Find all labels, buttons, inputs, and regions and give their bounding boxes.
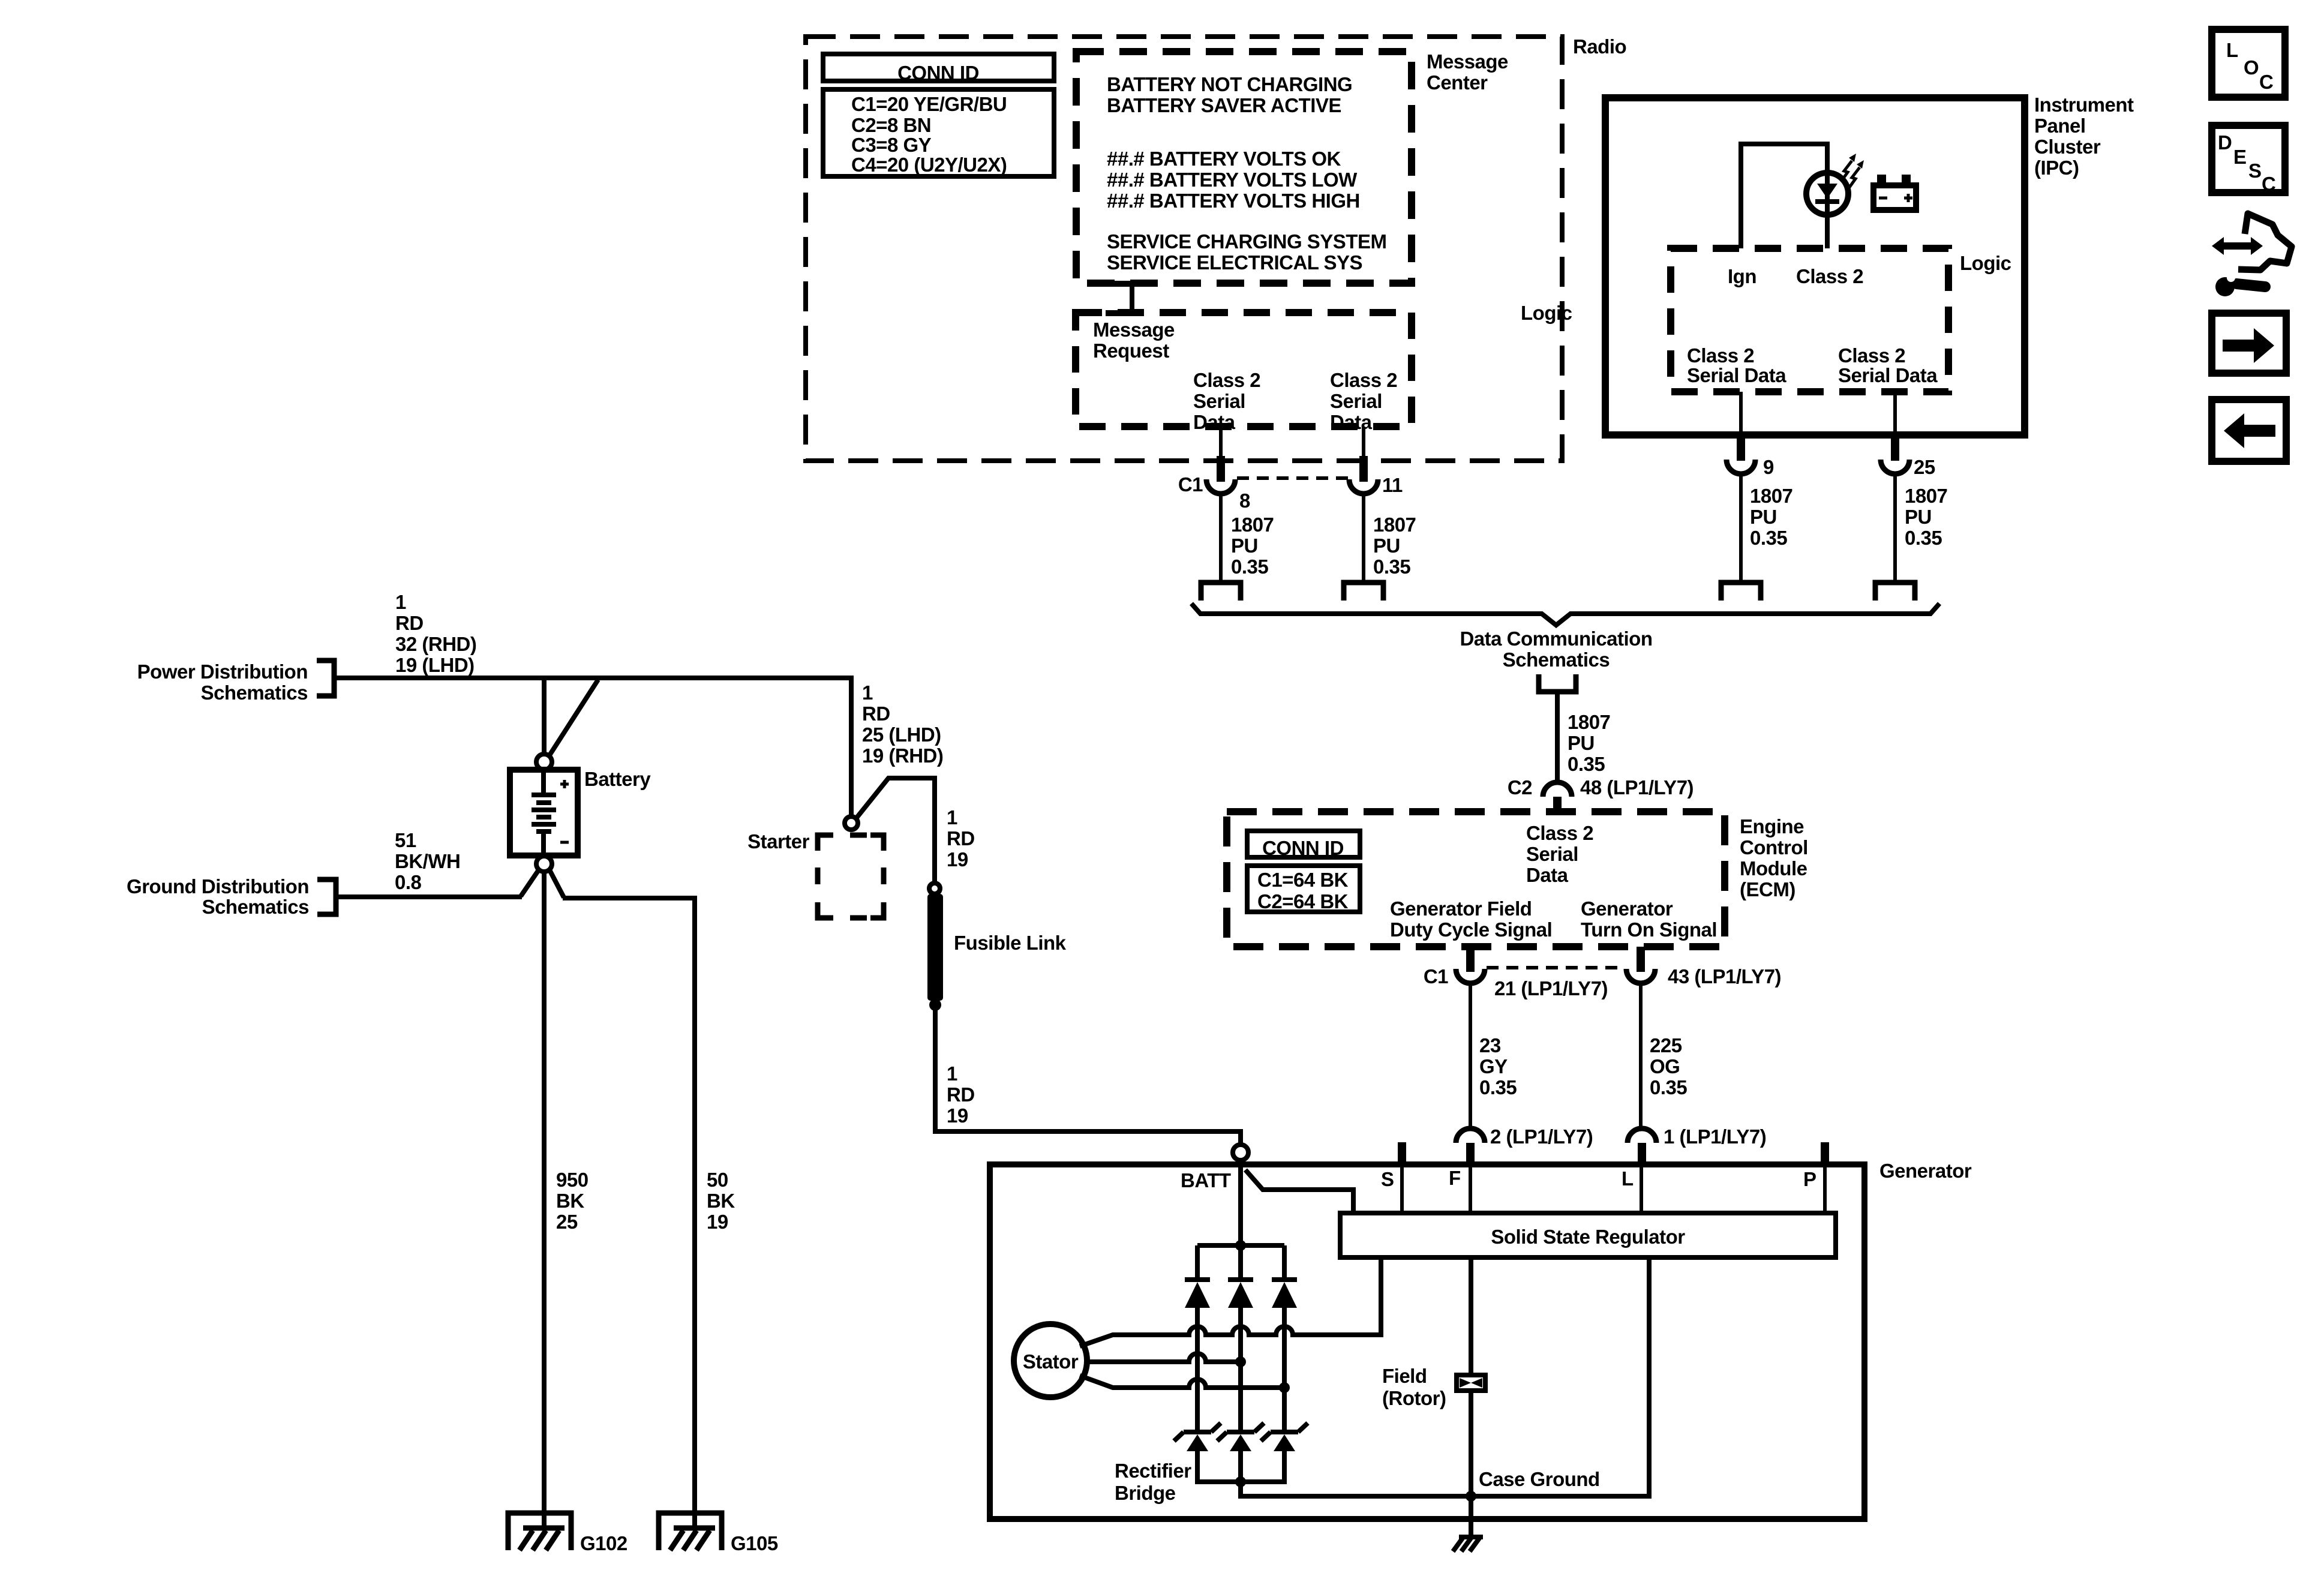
svg-text:19: 19 (947, 1104, 968, 1127)
svg-text:1: 1 (862, 682, 873, 704)
svg-text:Data: Data (1526, 864, 1569, 886)
svg-text:32 (RHD): 32 (RHD) (395, 633, 476, 655)
svg-text:48 (LP1/LY7): 48 (LP1/LY7) (1580, 776, 1694, 798)
svg-text:C4=20 (U2Y/U2X): C4=20 (U2Y/U2X) (851, 154, 1007, 176)
svg-text:Radio: Radio (1573, 35, 1626, 58)
svg-text:CONN ID: CONN ID (897, 62, 979, 84)
svg-text:(ECM): (ECM) (1740, 878, 1795, 900)
svg-text:Schematics: Schematics (201, 682, 308, 704)
svg-text:Stator: Stator (1023, 1350, 1079, 1373)
svg-text:9: 9 (1763, 456, 1774, 478)
svg-text:CONN ID: CONN ID (1262, 837, 1344, 859)
svg-text:PU: PU (1568, 732, 1595, 754)
svg-text:C3=8 GY: C3=8 GY (851, 134, 932, 156)
svg-text:Schematics: Schematics (1503, 649, 1610, 671)
svg-text:Bridge: Bridge (1115, 1482, 1176, 1504)
svg-text:O: O (2244, 56, 2259, 79)
svg-text:950: 950 (556, 1169, 588, 1191)
svg-text:43 (LP1/LY7): 43 (LP1/LY7) (1668, 965, 1781, 987)
svg-text:BATT: BATT (1181, 1169, 1231, 1191)
svg-text:Logic: Logic (1960, 252, 2011, 274)
svg-text:Instrument: Instrument (2034, 94, 2134, 116)
svg-text:Control: Control (1740, 836, 1808, 858)
svg-text:C1: C1 (1424, 965, 1448, 987)
svg-text:21 (LP1/LY7): 21 (LP1/LY7) (1494, 977, 1608, 999)
svg-text:D: D (2218, 131, 2232, 154)
svg-text:0.35: 0.35 (1650, 1076, 1687, 1098)
svg-text:C1=64 BK: C1=64 BK (1257, 869, 1349, 891)
svg-text:SERVICE ELECTRICAL SYS: SERVICE ELECTRICAL SYS (1107, 251, 1362, 274)
svg-text:SERVICE CHARGING SYSTEM: SERVICE CHARGING SYSTEM (1107, 230, 1386, 253)
svg-text:G105: G105 (731, 1532, 778, 1554)
svg-text:##.# BATTERY VOLTS OK: ##.# BATTERY VOLTS OK (1107, 148, 1341, 170)
svg-text:P: P (1803, 1168, 1816, 1190)
svg-text:BK/WH: BK/WH (395, 850, 460, 872)
svg-text:0.35: 0.35 (1479, 1076, 1517, 1098)
svg-text:Engine: Engine (1740, 815, 1804, 837)
svg-text:1807: 1807 (1568, 711, 1610, 733)
svg-text:Serial: Serial (1330, 390, 1382, 412)
svg-text:Class 2: Class 2 (1330, 369, 1397, 391)
svg-text:25 (LHD): 25 (LHD) (862, 724, 941, 746)
svg-text:C2=8 BN: C2=8 BN (851, 114, 931, 136)
svg-text:S: S (1381, 1168, 1394, 1190)
svg-text:PU: PU (1231, 535, 1258, 557)
svg-text:Case Ground: Case Ground (1479, 1468, 1600, 1490)
svg-text:0.35: 0.35 (1373, 556, 1410, 578)
svg-text:25: 25 (1914, 456, 1935, 478)
svg-text:C2: C2 (1508, 776, 1532, 798)
svg-text:Rectifier: Rectifier (1115, 1460, 1191, 1482)
svg-text:Starter: Starter (747, 830, 810, 852)
svg-text:Schematics: Schematics (202, 896, 309, 918)
svg-text:C2=64 BK: C2=64 BK (1257, 890, 1349, 912)
svg-text:11: 11 (1382, 474, 1403, 496)
svg-text:2 (LP1/LY7): 2 (LP1/LY7) (1490, 1125, 1593, 1148)
svg-text:Center: Center (1427, 71, 1488, 94)
svg-text:Class 2: Class 2 (1796, 265, 1863, 287)
svg-text:RD: RD (947, 1083, 975, 1106)
svg-text:Class 2: Class 2 (1526, 822, 1593, 844)
svg-text:8: 8 (1239, 490, 1250, 512)
svg-text:Serial Data: Serial Data (1687, 364, 1786, 386)
svg-text:Generator Field: Generator Field (1390, 897, 1532, 920)
svg-text:19 (LHD): 19 (LHD) (395, 654, 475, 676)
svg-text:BATTERY NOT CHARGING: BATTERY NOT CHARGING (1107, 73, 1352, 95)
svg-text:(Rotor): (Rotor) (1382, 1387, 1446, 1409)
svg-text:19: 19 (707, 1211, 728, 1233)
svg-text:Request: Request (1093, 340, 1169, 362)
svg-text:E: E (2233, 146, 2247, 168)
svg-text:Battery: Battery (584, 768, 651, 790)
svg-text:Panel: Panel (2034, 115, 2086, 137)
svg-text:OG: OG (1650, 1055, 1680, 1077)
svg-text:1807: 1807 (1905, 485, 1947, 507)
svg-text:1807: 1807 (1231, 514, 1274, 536)
svg-text:Class 2: Class 2 (1193, 369, 1260, 391)
svg-text:C1: C1 (1178, 473, 1203, 496)
svg-text:Module: Module (1740, 857, 1807, 879)
svg-text:Generator: Generator (1879, 1160, 1972, 1182)
svg-text:0.35: 0.35 (1568, 753, 1605, 775)
svg-text:PU: PU (1373, 535, 1400, 557)
svg-text:RD: RD (862, 703, 890, 725)
svg-text:Class 2: Class 2 (1838, 344, 1905, 367)
svg-text:##.# BATTERY VOLTS HIGH: ##.# BATTERY VOLTS HIGH (1107, 190, 1360, 212)
svg-text:19: 19 (947, 848, 968, 870)
svg-text:Duty Cycle Signal: Duty Cycle Signal (1390, 918, 1552, 941)
svg-text:0.8: 0.8 (395, 871, 422, 893)
svg-text:L: L (1622, 1167, 1634, 1190)
svg-text:51: 51 (395, 829, 416, 851)
svg-text:1807: 1807 (1373, 514, 1416, 536)
svg-text:Solid State Regulator: Solid State Regulator (1491, 1226, 1685, 1248)
svg-text:Logic: Logic (1521, 302, 1572, 324)
svg-text:RD: RD (395, 612, 424, 634)
svg-text:19 (RHD): 19 (RHD) (862, 745, 943, 767)
svg-text:1: 1 (395, 591, 406, 613)
svg-text:50: 50 (707, 1169, 728, 1191)
svg-text:BK: BK (707, 1190, 735, 1212)
svg-text:Fusible Link: Fusible Link (954, 932, 1067, 954)
svg-text:1807: 1807 (1750, 485, 1792, 507)
svg-text:BATTERY SAVER ACTIVE: BATTERY SAVER ACTIVE (1107, 94, 1341, 116)
svg-text:##.# BATTERY VOLTS LOW: ##.# BATTERY VOLTS LOW (1107, 169, 1358, 191)
svg-text:Serial Data: Serial Data (1838, 364, 1938, 386)
svg-text:Serial: Serial (1526, 843, 1578, 865)
svg-text:Cluster: Cluster (2034, 136, 2101, 158)
svg-text:23: 23 (1479, 1034, 1501, 1056)
svg-text:Data: Data (1330, 411, 1373, 433)
svg-text:(IPC): (IPC) (2034, 157, 2079, 179)
svg-text:1: 1 (947, 1062, 957, 1085)
svg-text:F: F (1449, 1167, 1461, 1189)
svg-text:Message: Message (1427, 50, 1508, 73)
svg-text:Data Communication: Data Communication (1460, 628, 1652, 650)
svg-text:1: 1 (947, 806, 957, 828)
svg-text:1 (LP1/LY7): 1 (LP1/LY7) (1664, 1125, 1766, 1148)
svg-text:Field: Field (1382, 1365, 1427, 1387)
svg-text:Class 2: Class 2 (1687, 344, 1754, 367)
svg-text:GY: GY (1479, 1055, 1508, 1077)
svg-text:C: C (2262, 173, 2275, 195)
svg-text:Turn On Signal: Turn On Signal (1581, 918, 1717, 941)
svg-text:Generator: Generator (1581, 897, 1673, 920)
svg-text:BK: BK (556, 1190, 584, 1212)
svg-text:C1=20 YE/GR/BU: C1=20 YE/GR/BU (851, 93, 1007, 115)
svg-text:PU: PU (1750, 506, 1777, 528)
svg-text:Serial: Serial (1193, 390, 1245, 412)
svg-text:S: S (2248, 160, 2262, 182)
svg-text:0.35: 0.35 (1231, 556, 1268, 578)
svg-text:Message: Message (1093, 319, 1175, 341)
svg-text:L: L (2226, 39, 2238, 61)
svg-text:Ign: Ign (1728, 265, 1756, 287)
svg-text:G102: G102 (580, 1532, 627, 1554)
svg-text:Power Distribution: Power Distribution (137, 661, 308, 683)
svg-text:RD: RD (947, 827, 975, 849)
svg-text:PU: PU (1905, 506, 1932, 528)
svg-text:25: 25 (556, 1211, 578, 1233)
svg-text:C: C (2259, 71, 2273, 93)
svg-text:Ground Distribution: Ground Distribution (127, 875, 309, 897)
svg-text:0.35: 0.35 (1905, 527, 1942, 549)
svg-text:Data: Data (1193, 411, 1236, 433)
svg-text:0.35: 0.35 (1750, 527, 1787, 549)
svg-text:225: 225 (1650, 1034, 1682, 1056)
